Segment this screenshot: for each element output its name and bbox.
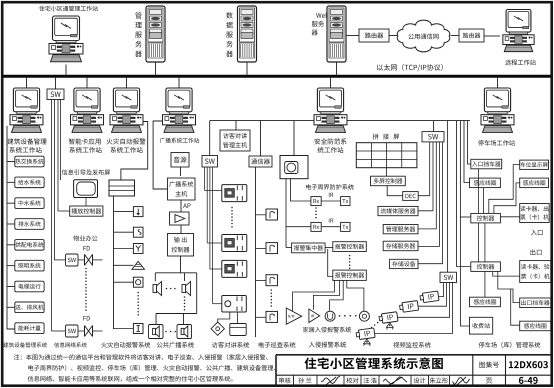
wire router2 to remote PC — [484, 35, 500, 37]
wire to property SW1 — [0, 0, 1, 1]
wire host to amplifier — [180, 200, 182, 212]
wire server3 to bus — [336, 62, 338, 76]
wire amp to output controller — [180, 225, 182, 234]
wire SW-A to bus — [55, 78, 57, 89]
wire SW-V drop — [433, 121, 435, 132]
workstation security — [314, 88, 347, 132]
storage device box — [390, 259, 418, 268]
label ethernet tcp/ip — [377, 64, 443, 71]
label intrusion alarm system — [309, 342, 346, 348]
Rx box row2 — [311, 222, 321, 231]
switch property SW2 — [66, 325, 85, 337]
wire collector down to controller2 — [328, 249, 333, 277]
reviewer name — [298, 378, 311, 384]
cloud public network — [397, 20, 450, 52]
exit loop box r1 — [520, 178, 549, 188]
ip camera 4 — [356, 328, 375, 346]
ip camera wires — [375, 283, 453, 334]
speaker feed wires — [155, 256, 196, 314]
wire screen to controller — [85, 198, 87, 207]
toll station box — [470, 317, 493, 334]
boxed speaker feed — [156, 314, 197, 325]
patrol riser — [255, 167, 257, 337]
label exit — [530, 249, 541, 255]
label building mgmt system — [3, 342, 47, 347]
label fire alarm workstation — [107, 138, 146, 153]
switch intercom SW — [202, 156, 218, 168]
wire collector bend — [286, 247, 292, 249]
intercom indoor unit 2 — [222, 235, 247, 252]
Rx box row1 — [311, 197, 321, 206]
subsystem box 供配电系统 — [15, 240, 44, 251]
proofer name — [363, 378, 376, 384]
wire grid to controller — [385, 168, 387, 177]
dotted below horn2 — [184, 296, 186, 310]
IR label row1 — [329, 193, 333, 197]
server tower data — [238, 6, 257, 62]
management server box — [383, 225, 418, 234]
microwave detector R/M — [286, 308, 301, 324]
subsystem box 中水系统 — [15, 198, 44, 209]
alarm controller 1 box — [333, 242, 367, 252]
subsystem box 能耗计量 — [15, 323, 44, 334]
dots between box speakers — [165, 331, 176, 333]
workstation smart card — [71, 88, 104, 132]
label FD 2 — [83, 316, 89, 320]
box speaker 1 — [149, 325, 164, 339]
dots between horns — [166, 288, 176, 290]
box speaker 2 — [177, 325, 192, 339]
label entry — [531, 230, 543, 236]
patrol point reader 1 — [266, 209, 278, 220]
exit loop box 2 — [470, 297, 501, 307]
wire cloud to router2 — [451, 35, 460, 37]
label atlas no — [479, 362, 498, 368]
stub wire patrol 1 — [256, 214, 267, 216]
label parking workstation — [478, 140, 515, 146]
parking trunk wires — [457, 121, 471, 326]
label AP — [183, 203, 190, 208]
wire perimeter row2 — [286, 226, 311, 228]
alarm controller 2 box — [333, 270, 367, 280]
stub wire to 送、排风机 — [7, 306, 15, 308]
horn speaker 2 — [182, 282, 191, 296]
camera dots — [371, 322, 379, 329]
wire line to camera junction — [293, 121, 295, 156]
stub wire to 照明系统 — [7, 265, 15, 267]
ip camera 3 — [379, 312, 398, 330]
visitor intercom host box — [220, 130, 250, 151]
workstation fire alarm — [110, 88, 143, 132]
wire server1 to bus — [155, 62, 157, 76]
wire PC3 to bus — [86, 78, 88, 88]
wire door station to exit button — [237, 312, 239, 324]
building riser wire — [7, 126, 15, 329]
design signature — [453, 377, 470, 385]
intercom indoor unit 3 — [222, 260, 247, 277]
wire PC4 to fire panel — [121, 122, 148, 181]
subsystem box 电梯运行 — [15, 281, 44, 292]
router R2 — [459, 29, 484, 42]
label broadcast workstation — [160, 138, 199, 143]
DEC box — [403, 192, 419, 201]
workstation broadcast — [163, 88, 196, 132]
subsystem box 排水系统 — [15, 219, 44, 230]
fiber damper FD2 symbol — [85, 326, 93, 337]
entry loop box — [470, 178, 501, 188]
ticket verify exit box — [520, 261, 551, 283]
note line 2 — [28, 365, 275, 371]
fire detector tri — [132, 261, 145, 269]
wire Rx-Tx row2 — [321, 226, 340, 228]
label management server — [135, 12, 142, 57]
intercom indoor unit 1 — [222, 185, 247, 202]
label fire alarm system — [101, 342, 150, 348]
wire door station to lock — [218, 312, 230, 322]
stub wire fire device I — [114, 328, 134, 330]
broadcast host box — [168, 178, 196, 200]
review cell — [279, 377, 291, 383]
wire PC4 to bus — [126, 78, 128, 88]
wire controller2 to exit barrier — [498, 271, 520, 302]
stub wire to 中水系统 — [7, 202, 15, 204]
space display box — [520, 160, 549, 169]
stub wire fire device Y — [114, 248, 134, 250]
wire to property SW2 — [52, 330, 66, 332]
wire PC5 to bus — [178, 78, 180, 88]
server tower web — [327, 6, 346, 62]
SW-A drop wires — [52, 100, 61, 332]
wire line to communicator — [260, 121, 262, 156]
wire server2 to bus — [246, 62, 248, 76]
alarm device wires — [293, 280, 364, 311]
fire detector O — [133, 277, 143, 287]
security distribution wire left — [210, 120, 314, 122]
stub wire to 排水系统 — [7, 223, 15, 225]
stub wire to 给水系统 — [7, 181, 15, 183]
patrol point reader 4 — [266, 311, 278, 322]
label parking management system — [479, 342, 541, 348]
audio source box — [171, 153, 189, 168]
label security workstation — [314, 138, 346, 153]
fire detector arr — [133, 207, 143, 217]
stub wire to 电梯运行 — [7, 285, 15, 287]
workstation PC1 community management — [49, 16, 83, 62]
router R1 — [359, 29, 389, 42]
wire to intercom unit2 — [207, 242, 222, 244]
fire loop riser — [113, 196, 115, 329]
wire PC6 to bus — [330, 78, 332, 88]
exit button box — [230, 324, 246, 336]
glass break detector — [359, 311, 369, 321]
design cell — [414, 378, 426, 384]
label patrol system — [259, 342, 296, 348]
page number — [519, 377, 538, 384]
switch video SW-V — [422, 132, 444, 142]
door contact — [325, 311, 335, 321]
output controller box — [168, 234, 194, 257]
atlas number — [509, 361, 548, 368]
video wall grid — [356, 143, 417, 168]
title block table — [276, 355, 551, 386]
note line 3 — [28, 376, 233, 382]
stub wire fire device S — [114, 231, 134, 233]
alarm collector box — [292, 243, 326, 253]
intercom dotted — [231, 207, 233, 228]
stub wire fire device arr — [114, 211, 134, 213]
proof cell — [346, 377, 358, 383]
perimeter dotted — [315, 207, 317, 218]
label video surveillance system — [393, 342, 430, 348]
Tx box row2 — [341, 222, 350, 231]
bottom loop box — [520, 321, 551, 331]
intercom drop wires — [205, 167, 213, 304]
patrol point reader 2 — [266, 243, 278, 254]
label property office — [73, 235, 97, 241]
fire detector Y — [133, 244, 143, 254]
controller1 risers — [479, 165, 520, 214]
wire to playback controller — [58, 210, 70, 212]
wire audio to host — [180, 167, 182, 176]
wire PC5 to audio source — [0, 0, 1, 1]
label community management workstation — [39, 6, 98, 11]
wire PC1 to bus — [65, 65, 67, 77]
wire router1 to cloud — [389, 35, 397, 37]
label perimeter system — [306, 184, 354, 190]
infrared detector IR — [309, 309, 320, 323]
subsystem box 热交换系统 — [15, 156, 44, 167]
display screen icon — [74, 180, 98, 198]
IR label row2 — [329, 219, 333, 223]
label building equipment workstation — [7, 138, 46, 153]
ip camera 1 — [420, 291, 439, 303]
wire FD1 right — [93, 259, 103, 261]
label video wall — [373, 134, 399, 140]
wire line to intercom host — [235, 121, 237, 130]
broadcast host elbow wire — [153, 121, 167, 189]
wire Rx-Tx row1 — [321, 200, 340, 202]
communicator box — [249, 156, 272, 167]
proof signature — [383, 377, 407, 385]
stub wire fire device tri — [114, 264, 134, 266]
fire detector S — [133, 227, 143, 237]
label info display screen — [62, 169, 110, 175]
label info network system — [54, 342, 87, 347]
stub wire fire device O — [114, 281, 134, 283]
wire to bottom loop — [511, 289, 520, 325]
Tx box row1 — [341, 197, 350, 206]
entry barrier box — [471, 159, 502, 169]
label page — [486, 378, 492, 384]
stub wire to 供配电系统 — [7, 244, 15, 246]
fiber damper FD1 symbol — [85, 254, 93, 265]
label FD 1 — [83, 246, 89, 250]
note line 1 — [14, 354, 268, 360]
review signature — [321, 376, 340, 385]
door station unit — [222, 296, 247, 313]
electric lock diamond — [211, 322, 224, 335]
security distribution wire right — [348, 120, 471, 122]
video server wires — [418, 142, 443, 264]
camera junction box — [280, 156, 308, 179]
label visitor intercom system — [212, 342, 249, 348]
dotted riser between FD rows — [85, 268, 87, 311]
wire controller1 to ticket machine — [500, 216, 519, 218]
wire PC2 to bus — [26, 78, 28, 88]
streaming media server box — [378, 206, 418, 215]
patrol dotted — [271, 289, 273, 307]
subsystem box 送、排风机 — [15, 302, 44, 313]
workstation remote — [503, 10, 534, 52]
label home alarm system — [303, 327, 351, 333]
wire to door station — [213, 303, 222, 305]
stub wire patrol 3 — [256, 279, 267, 281]
label web server — [312, 13, 329, 36]
switch SW-A info network — [47, 89, 64, 100]
wire PC7 to bus — [497, 78, 499, 88]
fire loop dotted — [137, 292, 139, 316]
fire detector I — [133, 324, 143, 334]
workstation parking — [481, 88, 514, 132]
ip camera 2 — [399, 301, 418, 313]
subsystem box 照明系统 — [15, 260, 44, 271]
switch video SW2 — [440, 272, 457, 282]
stub wire to 热交换系统 — [7, 161, 15, 163]
label data server — [226, 12, 233, 57]
ethernet backbone bus — [4, 75, 551, 78]
label remote workstation — [505, 60, 536, 66]
wire SW2 feed — [447, 121, 449, 273]
perimeter feeder wires — [286, 179, 311, 248]
wire to intercom unit1 — [205, 189, 223, 191]
switch property SW1 — [55, 254, 85, 266]
stub wire patrol 2 — [256, 247, 267, 249]
alarm dots — [339, 315, 357, 317]
wire web server to router1 — [346, 35, 359, 37]
wire controller2 to verify machine — [493, 271, 520, 276]
fire alarm control panel — [109, 180, 135, 196]
label public address system — [157, 342, 194, 348]
playback controller box — [70, 206, 103, 216]
wire to intercom unit3 — [210, 268, 222, 270]
designer name — [430, 377, 448, 383]
parking controller 1 box — [471, 213, 501, 223]
controller2 risers — [479, 223, 485, 262]
wire line to intercom SW — [209, 121, 211, 156]
stub wire patrol 4 — [256, 316, 267, 318]
alarm dotted between controllers — [349, 255, 351, 269]
title text — [305, 357, 443, 369]
wire FD2 right — [93, 330, 103, 332]
wire collector to controller1 — [325, 247, 333, 249]
workstation building equipment — [10, 88, 43, 132]
multiscreen controller box — [371, 176, 406, 186]
label smart card workstation — [69, 138, 102, 153]
amplifier AP box — [170, 212, 190, 225]
subsystem box 给水系统 — [15, 177, 44, 188]
ticket machine entry box — [520, 204, 550, 223]
server tower management — [146, 6, 165, 62]
wire controller2 to exit loop — [484, 271, 486, 297]
storage server box — [383, 241, 418, 251]
horn speaker 1 — [153, 282, 162, 296]
parking controller 2 box — [471, 262, 501, 272]
patrol point reader 3 — [266, 275, 278, 286]
wire controller to DEC — [387, 186, 403, 196]
exit barrier box — [520, 298, 551, 308]
